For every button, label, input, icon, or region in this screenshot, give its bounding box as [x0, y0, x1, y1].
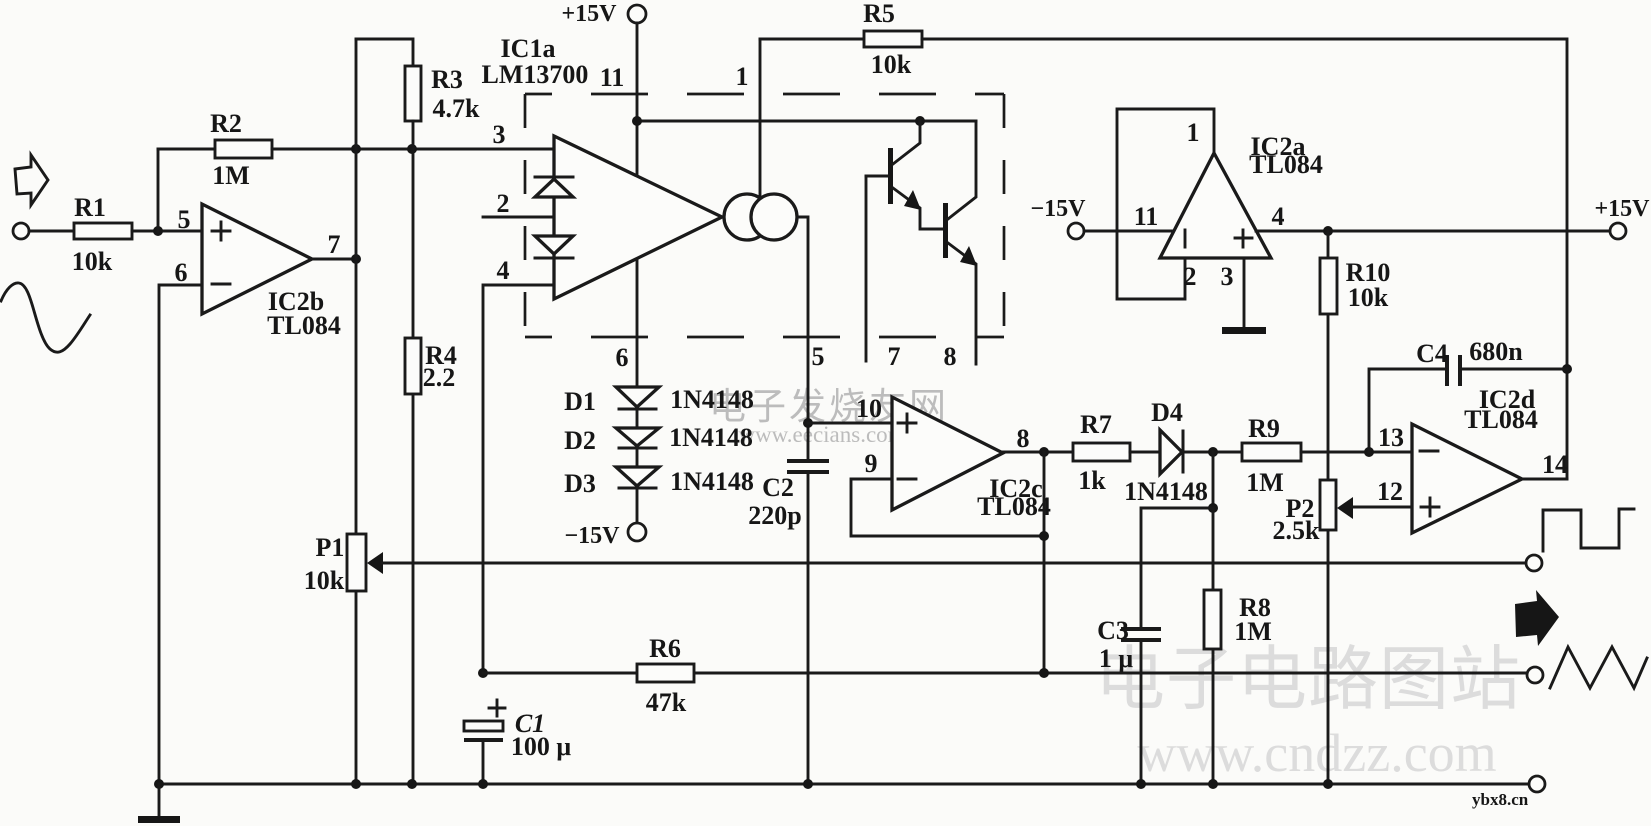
ground stem	[158, 784, 161, 817]
input arrow	[15, 155, 48, 205]
wire pin5 down to C2	[797, 217, 808, 460]
node rail 3	[407, 779, 417, 789]
Q1 emitter	[893, 188, 944, 229]
internal top rail	[637, 120, 976, 123]
node at R1 output	[153, 226, 163, 236]
capacitor C4	[1447, 355, 1460, 386]
svg-text:10: 10	[856, 394, 882, 423]
resistor R6	[637, 664, 694, 682]
node pin5/pin10	[803, 418, 813, 428]
svg-text:7: 7	[888, 342, 901, 371]
wire IC2c out down	[1043, 452, 1046, 673]
svg-text:8: 8	[944, 342, 957, 371]
+15V terminal	[628, 5, 646, 23]
node R6 rail	[1039, 668, 1049, 678]
capacitor C1 plus	[489, 700, 505, 716]
wire pin11 vertical	[636, 23, 639, 387]
svg-text:14: 14	[1542, 450, 1568, 479]
svg-text:R6: R6	[649, 634, 681, 663]
svg-text:TL084: TL084	[267, 311, 341, 340]
svg-text:680n: 680n	[1469, 337, 1523, 366]
wire R3 R4 bus	[412, 121, 415, 784]
svg-text:9: 9	[865, 449, 878, 478]
node pin11 rail	[632, 116, 642, 126]
ground bar	[138, 816, 180, 823]
wire R5 left	[760, 38, 864, 41]
svg-text:TL084: TL084	[977, 492, 1051, 521]
ground IC2a	[1222, 327, 1266, 334]
node R10 top	[1323, 226, 1333, 236]
svg-text:8: 8	[1017, 424, 1030, 453]
svg-text:1M: 1M	[1234, 617, 1272, 646]
wire jog to R3	[356, 39, 413, 66]
diode D4	[1160, 430, 1182, 474]
op-amp IC2b	[202, 204, 312, 314]
wire to C3	[1141, 508, 1213, 629]
wire R1 to pin5	[132, 230, 202, 233]
IC1a dashed box	[525, 94, 1004, 337]
current source circle right	[751, 194, 797, 240]
svg-text:D3: D3	[564, 469, 596, 498]
wire pin4	[483, 285, 554, 673]
svg-text:D2: D2	[564, 426, 596, 455]
svg-text:11: 11	[600, 63, 625, 92]
resistor R5	[864, 31, 922, 47]
svg-text:1 μ: 1 μ	[1099, 644, 1134, 673]
node D4 out	[1208, 447, 1218, 457]
svg-text:100 μ: 100 μ	[511, 732, 572, 761]
diode D1	[616, 387, 659, 409]
svg-text:6: 6	[175, 258, 188, 287]
svg-text:12: 12	[1377, 477, 1403, 506]
node C3 branch	[1208, 503, 1218, 513]
input terminal	[13, 223, 29, 239]
wire triangle-wave rail	[483, 672, 1527, 675]
svg-text:−15V: −15V	[564, 523, 620, 549]
svg-text:LM13700: LM13700	[482, 60, 589, 89]
svg-text:10k: 10k	[72, 247, 113, 276]
P2 wiper arrow	[1337, 497, 1353, 519]
svg-text:4.7k: 4.7k	[433, 94, 481, 123]
node rail 8	[1323, 779, 1333, 789]
Q2 emitter arrow	[960, 246, 977, 266]
svg-text:+15V: +15V	[561, 1, 617, 27]
svg-text:4: 4	[1272, 202, 1285, 231]
node rail 2	[351, 779, 361, 789]
svg-text:P1: P1	[316, 533, 345, 562]
Q1 base wire	[866, 175, 888, 178]
node C1 R6	[478, 668, 488, 678]
wire R2 to pin3	[272, 148, 554, 151]
wire pin7 stub	[865, 176, 868, 361]
svg-text:TL084: TL084	[1464, 405, 1538, 434]
svg-text:2.5k: 2.5k	[1273, 516, 1321, 545]
wire node to R8	[1212, 508, 1215, 784]
resistor R3	[405, 66, 421, 121]
wire -15V to IC2a	[1084, 230, 1174, 233]
capacitor C3	[1121, 629, 1161, 640]
wire square-wave rail	[382, 562, 1526, 565]
wire R9 to pin13	[1301, 451, 1412, 454]
svg-text:1N4148: 1N4148	[670, 385, 754, 414]
svg-text:10k: 10k	[1348, 283, 1389, 312]
node IC2c out	[1039, 447, 1049, 457]
wire C3 to rail	[1140, 640, 1143, 784]
svg-text:TL084: TL084	[1249, 150, 1323, 179]
P1 wiper arrow	[367, 552, 383, 574]
wire diode chain	[636, 409, 639, 524]
-15V terminal bottom	[628, 523, 646, 541]
svg-text:3: 3	[493, 120, 506, 149]
transistor Q1 base bar	[888, 148, 893, 204]
op-amp IC2a	[1160, 153, 1271, 258]
resistor R4	[405, 338, 421, 394]
svg-text:220p: 220p	[748, 501, 801, 530]
node transistor rail	[915, 116, 925, 126]
svg-text:10k: 10k	[304, 566, 345, 595]
resistor R9	[1242, 443, 1301, 461]
node B	[407, 144, 417, 154]
sine wave symbol	[1, 283, 90, 352]
svg-text:IC1a: IC1a	[501, 34, 556, 63]
svg-text:R2: R2	[210, 109, 242, 138]
svg-text:R3: R3	[431, 65, 463, 94]
triangle wave symbol	[1550, 647, 1647, 688]
rail terminal right	[1529, 776, 1545, 792]
Q1 emitter arrow	[904, 190, 921, 210]
Q2 collector	[948, 121, 976, 219]
resistor R10	[1320, 258, 1337, 314]
node A	[351, 144, 361, 154]
input diode up	[535, 177, 573, 197]
svg-text:4: 4	[497, 256, 510, 285]
svg-text:R1: R1	[74, 193, 106, 222]
op-amp IC2d	[1412, 424, 1522, 533]
svg-text:2: 2	[497, 189, 510, 218]
svg-text:6: 6	[616, 343, 629, 372]
wire pin7 output	[312, 258, 356, 261]
svg-text:1N4148: 1N4148	[669, 423, 753, 452]
resistor R2	[215, 140, 272, 158]
node pin7	[351, 254, 361, 264]
svg-text:5: 5	[812, 342, 825, 371]
potentiometer P1	[347, 534, 366, 591]
wire C4 left	[1369, 369, 1447, 452]
svg-text:D4: D4	[1151, 398, 1183, 427]
wire to R2	[158, 148, 215, 151]
diode D2	[616, 428, 659, 448]
wire pin3 to ground	[1243, 258, 1246, 327]
Q2 emitter	[948, 243, 976, 364]
svg-text:1N4148: 1N4148	[1124, 477, 1208, 506]
svg-text:2.2: 2.2	[423, 363, 456, 392]
wire C1 to rail	[482, 740, 485, 784]
svg-text:10k: 10k	[871, 50, 912, 79]
wire input to R1	[29, 230, 74, 233]
svg-text:2: 2	[1184, 262, 1197, 291]
svg-text:D1: D1	[564, 387, 596, 416]
wire pin1	[759, 39, 762, 196]
svg-text:www.eecians.com: www.eecians.com	[738, 422, 905, 447]
node rail 5	[803, 779, 813, 789]
svg-text:C2: C2	[762, 473, 794, 502]
wire pin4 to +15V	[1256, 230, 1610, 233]
svg-text:3: 3	[1221, 262, 1234, 291]
diode D3	[616, 467, 659, 488]
svg-text:−15V: −15V	[1030, 196, 1086, 222]
node C4 right	[1562, 364, 1572, 374]
svg-text:C3: C3	[1097, 616, 1129, 645]
node feedback	[1039, 531, 1049, 541]
node rail 4	[478, 779, 488, 789]
svg-text:1M: 1M	[1246, 468, 1284, 497]
current source circle left	[724, 194, 770, 240]
svg-text:13: 13	[1378, 423, 1404, 452]
svg-text:11: 11	[1134, 202, 1159, 231]
svg-text:www.cndzz.com: www.cndzz.com	[1137, 723, 1496, 783]
node pin13	[1364, 447, 1374, 457]
-15V terminal IC2a	[1068, 223, 1084, 239]
square wave symbol	[1543, 509, 1634, 551]
wire IC2d output	[1522, 478, 1567, 481]
svg-text:1: 1	[1187, 118, 1200, 147]
potentiometer P2	[1320, 480, 1336, 530]
wire node up to R2	[157, 149, 160, 231]
svg-text:1: 1	[736, 62, 749, 91]
svg-text:+15V: +15V	[1594, 196, 1650, 222]
svg-text:R7: R7	[1080, 410, 1112, 439]
triangle out terminal	[1527, 667, 1543, 683]
svg-text:7: 7	[328, 230, 341, 259]
wire R7 to D4	[1130, 451, 1160, 454]
node rail 1	[154, 779, 164, 789]
svg-text:5: 5	[178, 205, 191, 234]
wire C4 right	[1460, 368, 1567, 371]
node rail 6	[1136, 779, 1146, 789]
wire pin10	[808, 422, 892, 425]
capacitor C1	[464, 721, 503, 731]
IC2a feedback loop	[1117, 109, 1214, 299]
wire R10 P2 bus	[1327, 231, 1330, 784]
bottom ground rail	[159, 783, 1529, 786]
+15V terminal right	[1610, 223, 1626, 239]
transistor Q2 base bar	[943, 203, 948, 258]
capacitor C2	[787, 461, 829, 472]
node rail 7	[1208, 779, 1218, 789]
wire pin6	[159, 285, 202, 784]
svg-text:R9: R9	[1248, 414, 1280, 443]
output block arrow	[1515, 590, 1559, 646]
wire pin12	[1352, 506, 1412, 509]
svg-text:1N4148: 1N4148	[670, 467, 754, 496]
svg-text:1k: 1k	[1078, 466, 1106, 495]
svg-text:ybx8.cn: ybx8.cn	[1472, 790, 1529, 809]
wire D4 to R9	[1183, 451, 1242, 454]
resistor R8	[1204, 590, 1221, 649]
resistor R1	[74, 223, 132, 239]
svg-text:47k: 47k	[646, 688, 687, 717]
OTA triangle IC1a	[554, 136, 722, 299]
svg-text:1M: 1M	[212, 161, 250, 190]
svg-text:电子电路图站: 电子电路图站	[1095, 642, 1521, 719]
svg-text:R5: R5	[863, 0, 895, 28]
wire C2 to ground rail	[807, 472, 810, 784]
wire pin9 feedback loop	[851, 479, 1044, 536]
square out terminal	[1526, 555, 1542, 571]
resistor R7	[1073, 443, 1130, 461]
input diode down	[535, 236, 573, 258]
Q1 collector	[893, 121, 920, 164]
wire node down	[1212, 452, 1215, 508]
wire vertical feedback bus	[355, 39, 358, 784]
svg-text:C4: C4	[1416, 339, 1448, 368]
op-amp IC2c	[892, 397, 1003, 510]
wire IC2c output	[1003, 451, 1073, 454]
wire R5 to right corner	[922, 39, 1567, 479]
wire pin2 stub	[483, 216, 554, 219]
